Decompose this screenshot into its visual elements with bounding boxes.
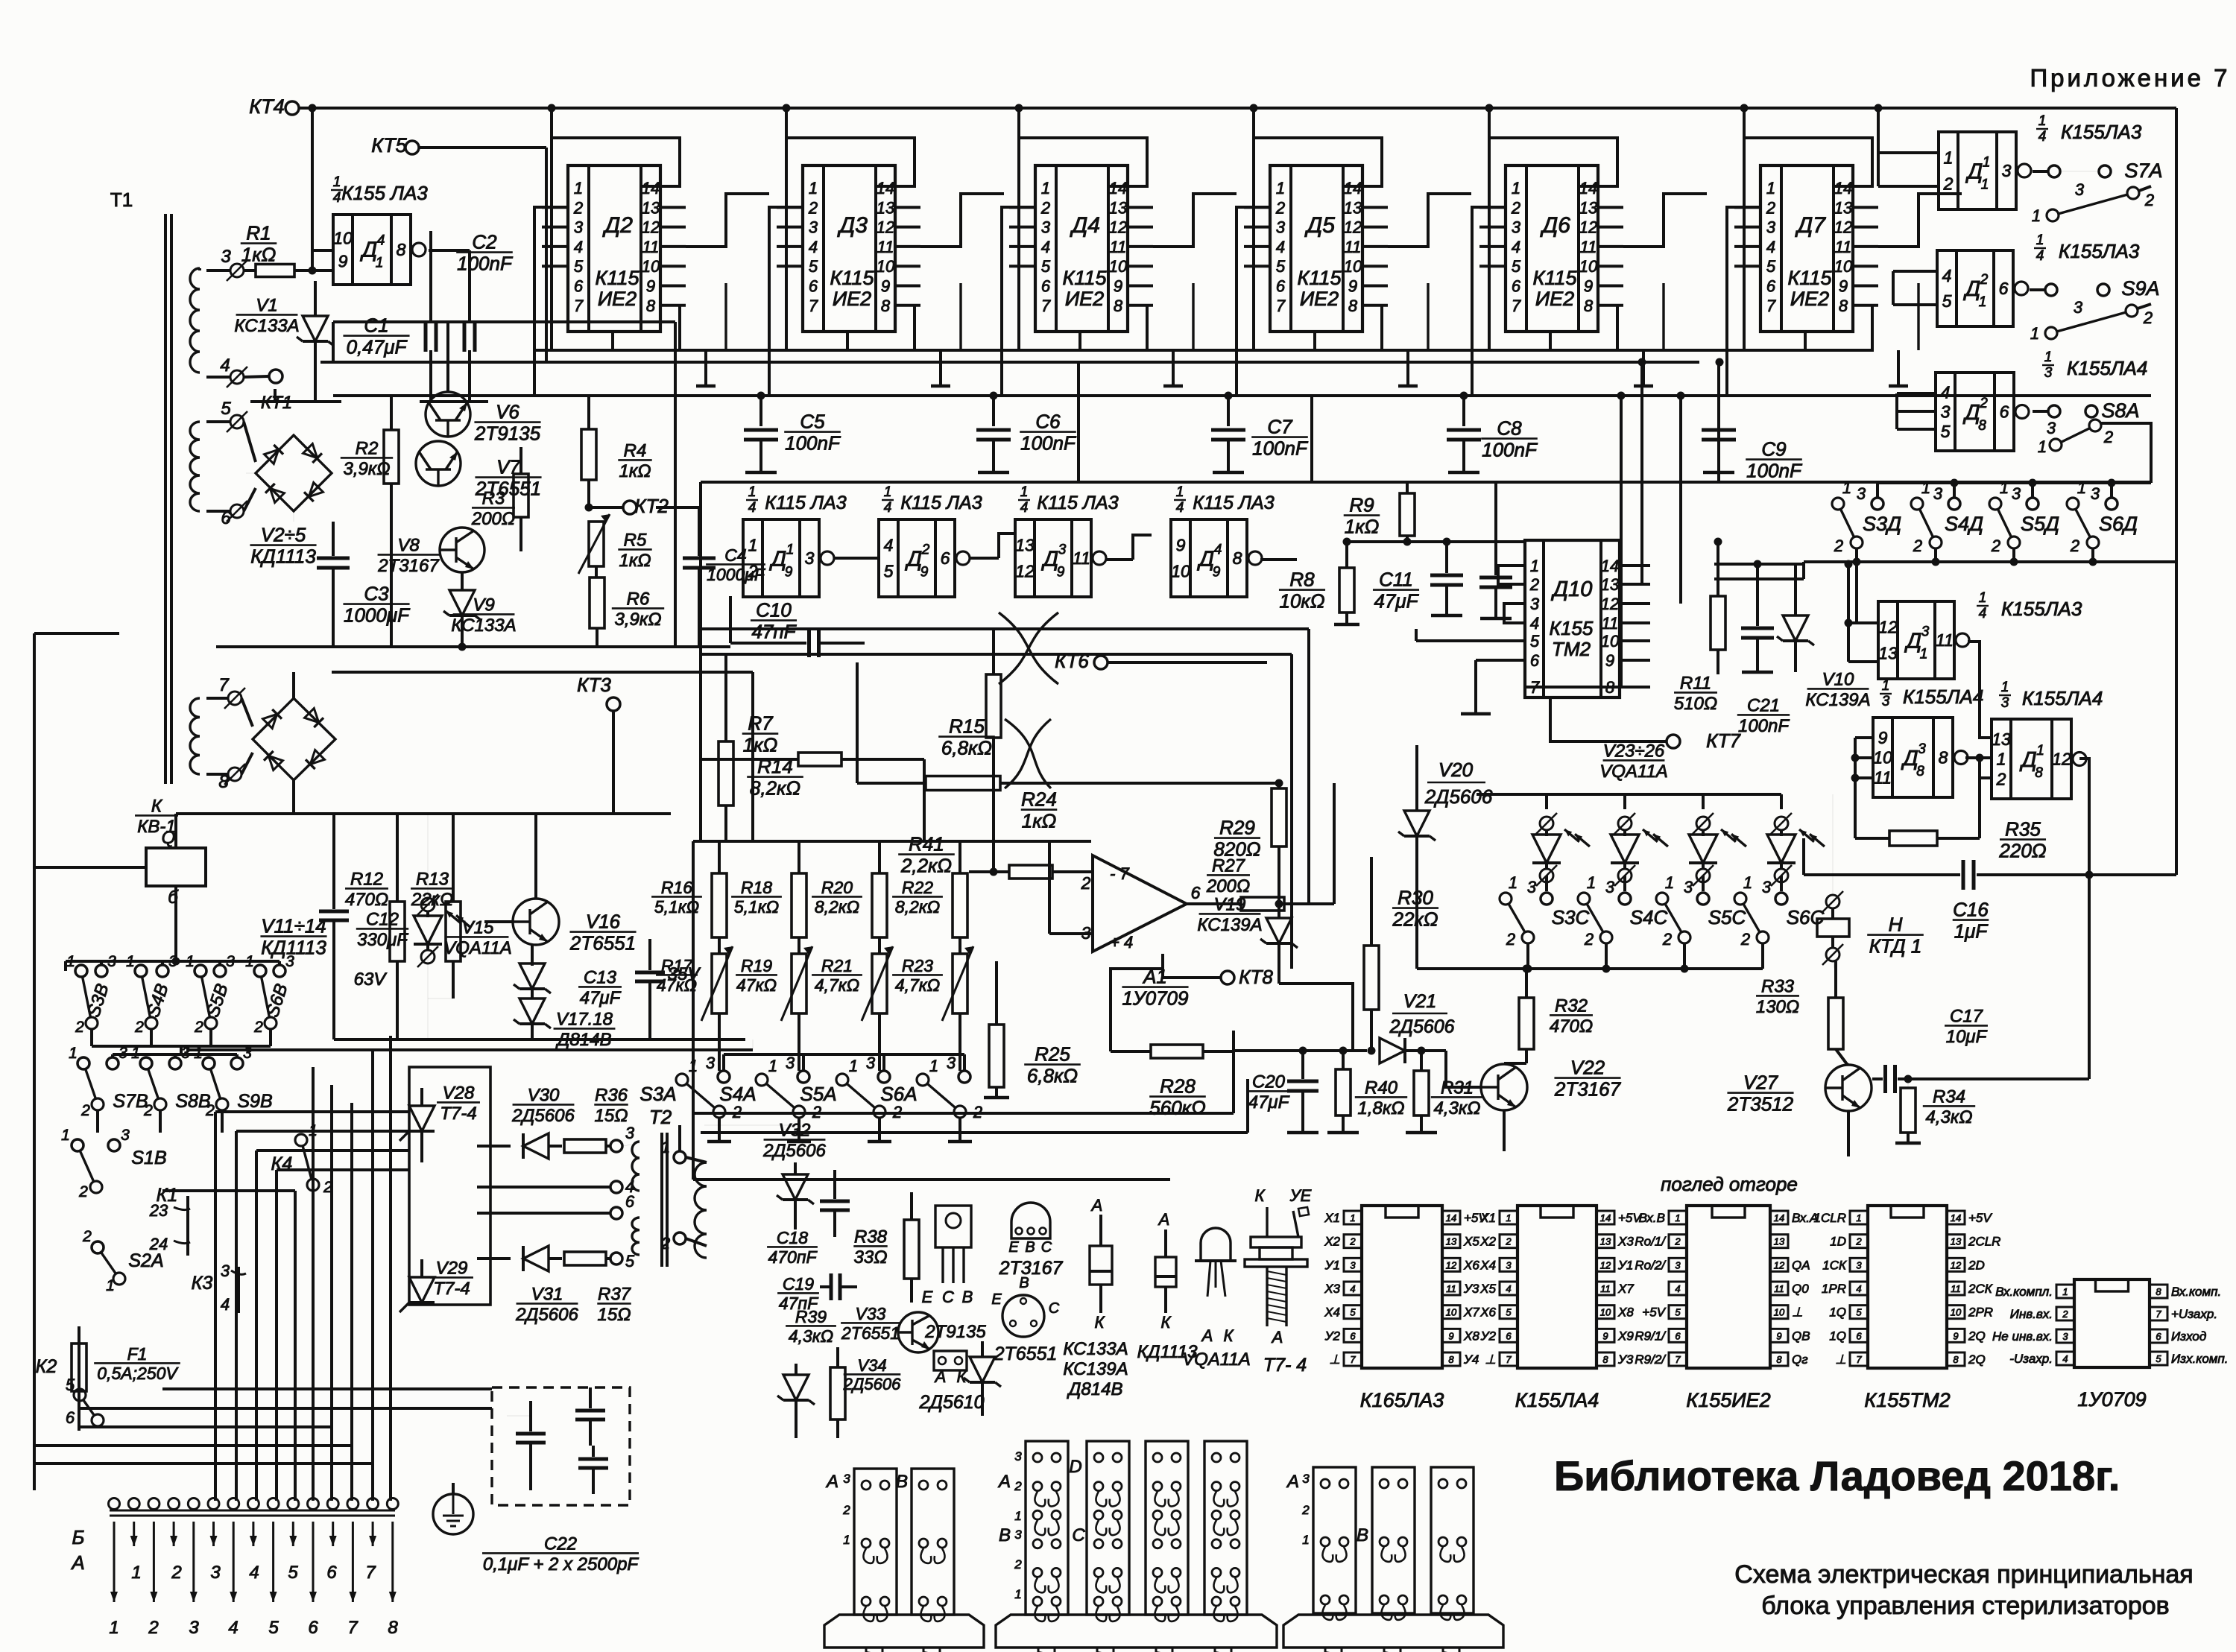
svg-text:9: 9: [1602, 1330, 1608, 1341]
svg-text:С: С: [1041, 1239, 1052, 1256]
svg-text:14: 14: [642, 179, 660, 197]
svg-text:4: 4: [228, 1618, 238, 1638]
svg-text:11: 11: [642, 238, 660, 256]
svg-text:R2: R2: [356, 439, 379, 459]
svg-text:R34: R34: [1933, 1087, 1965, 1107]
svg-text:Х6: Х6: [1463, 1258, 1479, 1272]
svg-text:1: 1: [2036, 743, 2044, 759]
svg-text:1: 1: [1276, 179, 1285, 197]
svg-text:+Uзахр.: +Uзахр.: [2171, 1307, 2217, 1321]
wires between ICs Д4: [1153, 194, 1237, 247]
svg-text:9: 9: [646, 277, 655, 296]
svg-text:22кΩ: 22кΩ: [1392, 908, 1438, 931]
svg-text:4: 4: [1276, 238, 1285, 256]
svg-text:Д6: Д6: [1540, 213, 1570, 238]
svg-text:13: 13: [1109, 198, 1128, 217]
svg-text:R11: R11: [1680, 674, 1711, 694]
svg-text:12: 12: [1015, 561, 1035, 580]
svg-text:КТ5: КТ5: [371, 134, 407, 156]
svg-text:14: 14: [1600, 1212, 1611, 1224]
svg-text:2CLR: 2CLR: [1968, 1235, 2000, 1249]
svg-text:Вх.комп.: Вх.комп.: [2171, 1285, 2221, 1299]
svg-text:VQA11А: VQA11А: [1182, 1349, 1251, 1370]
wires between ICs Д3: [920, 194, 1004, 247]
svg-text:КС133А: КС133А: [234, 316, 299, 336]
svg-text:-Uзахр.: -Uзахр.: [2009, 1352, 2053, 1366]
svg-text:2: 2: [842, 1503, 850, 1517]
svg-text:1: 1: [376, 255, 384, 270]
svg-text:2: 2: [1511, 198, 1520, 217]
svg-text:1: 1: [809, 179, 818, 197]
led V25: [1702, 794, 1705, 809]
svg-text:8: 8: [1776, 1354, 1782, 1365]
svg-text:К: К: [1224, 1326, 1234, 1345]
svg-text:3: 3: [285, 953, 294, 970]
svg-text:3: 3: [809, 218, 818, 237]
diode near R39: [783, 1375, 809, 1400]
pinout K155TM2: [1868, 1206, 1947, 1368]
svg-text:1: 1: [66, 953, 75, 970]
svg-text:11: 11: [1073, 548, 1090, 568]
switch S5Д: [1989, 498, 2001, 510]
svg-text:1: 1: [131, 1045, 140, 1062]
svg-text:3: 3: [706, 1054, 716, 1072]
svg-text:QА: QА: [1792, 1258, 1810, 1272]
wires between ICs Д2: [686, 194, 769, 247]
svg-text:С: С: [942, 1288, 954, 1306]
svg-text:3: 3: [1766, 218, 1776, 237]
svg-text:12: 12: [1878, 618, 1898, 637]
svg-text:Rо/2/: Rо/2/: [1635, 1258, 1667, 1272]
svg-text:2: 2: [1506, 930, 1515, 949]
svg-text:10: 10: [642, 257, 660, 276]
wire power box: [333, 320, 675, 323]
svg-text:10: 10: [1601, 632, 1620, 651]
svg-text:4: 4: [574, 238, 583, 256]
svg-text:1: 1: [1041, 179, 1050, 197]
svg-text:2Д5606: 2Д5606: [762, 1141, 826, 1161]
svg-text:11: 11: [877, 238, 894, 256]
wire KT5: [419, 146, 546, 149]
svg-text:8: 8: [1584, 297, 1594, 315]
svg-text:9: 9: [881, 277, 890, 296]
svg-text:R14: R14: [757, 755, 793, 777]
svg-text:Е: Е: [1008, 1239, 1019, 1256]
svg-text:V23÷26: V23÷26: [1603, 741, 1665, 762]
svg-text:V34: V34: [857, 1356, 886, 1375]
svg-text:1: 1: [748, 484, 757, 500]
svg-text:Х3: Х3: [1617, 1235, 1634, 1249]
winding T1 3-4: [190, 268, 200, 373]
svg-text:V8: V8: [397, 536, 420, 556]
wire supply2 box: [332, 671, 753, 674]
svg-text:S8A: S8A: [2101, 399, 2139, 422]
wire sw A bus: [724, 1053, 964, 1056]
svg-text:4: 4: [1530, 614, 1539, 633]
svg-text:100nF: 100nF: [1738, 716, 1790, 736]
svg-text:C4: C4: [724, 545, 746, 565]
svg-text:2: 2: [1979, 396, 1988, 411]
svg-text:1: 1: [1512, 179, 1520, 197]
svg-text:К155ЛА4: К155ЛА4: [1515, 1389, 1599, 1411]
svg-text:4: 4: [1856, 1283, 1861, 1294]
svg-text:Х4: Х4: [1479, 1258, 1496, 1272]
svg-text:8: 8: [1348, 297, 1358, 315]
svg-text:1кΩ: 1кΩ: [1345, 516, 1380, 538]
svg-text:560кΩ: 560кΩ: [1149, 1097, 1205, 1119]
svg-text:V16: V16: [586, 910, 621, 932]
svg-text:1: 1: [2062, 1286, 2068, 1297]
svg-text:1D: 1D: [1830, 1235, 1846, 1249]
svg-text:Т7- 4: Т7- 4: [1263, 1355, 1307, 1376]
svg-text:2Т9135: 2Т9135: [474, 423, 541, 445]
svg-text:5: 5: [1512, 257, 1521, 276]
svg-text:5,1кΩ: 5,1кΩ: [654, 897, 699, 917]
svg-text:7: 7: [1675, 1354, 1681, 1365]
svg-text:S5С: S5С: [1708, 906, 1746, 928]
svg-text:14: 14: [1344, 179, 1362, 197]
svg-text:9: 9: [1348, 277, 1357, 296]
svg-text:R3: R3: [482, 489, 505, 509]
svg-text:Х5: Х5: [1479, 1282, 1496, 1296]
wire S-D top bus: [1877, 481, 2151, 484]
svg-text:У1: У1: [1617, 1258, 1633, 1272]
svg-text:100nF: 100nF: [1020, 432, 1077, 455]
svg-text:Х8: Х8: [1463, 1329, 1479, 1343]
counter IC Д5 K115 IE2: [1270, 165, 1362, 332]
svg-text:10: 10: [1171, 561, 1190, 580]
svg-text:0,5А;250V: 0,5А;250V: [97, 1364, 179, 1383]
svg-text:35V: 35V: [668, 964, 701, 984]
svg-text:C5: C5: [800, 410, 825, 432]
switch S9A: [2045, 284, 2057, 296]
svg-text:5: 5: [1856, 1307, 1862, 1318]
svg-text:100nF: 100nF: [1252, 437, 1309, 460]
winding T1 5-6: [190, 422, 200, 511]
svg-text:R5: R5: [624, 531, 647, 551]
svg-text:КТ8: КТ8: [1239, 966, 1273, 988]
svg-text:8: 8: [1448, 1354, 1454, 1365]
svg-text:C18: C18: [777, 1228, 808, 1247]
svg-text:Т2: Т2: [649, 1106, 672, 1128]
earth ground: [452, 1483, 455, 1495]
svg-text:13: 13: [1774, 1236, 1785, 1247]
svg-text:6: 6: [941, 548, 950, 568]
svg-text:200Ω: 200Ω: [1206, 876, 1250, 896]
svg-text:У2: У2: [1324, 1329, 1341, 1343]
counter IC Д3 K115 IE2: [803, 165, 895, 332]
svg-text:9: 9: [785, 564, 793, 580]
svg-text:2: 2: [1505, 1236, 1512, 1247]
svg-text:R12: R12: [350, 870, 383, 890]
svg-text:Д7: Д7: [1795, 213, 1826, 238]
svg-text:6: 6: [1856, 1330, 1862, 1341]
svg-text:3: 3: [1512, 218, 1521, 237]
svg-text:1: 1: [131, 1563, 141, 1583]
svg-text:S5Д: S5Д: [2021, 513, 2059, 535]
svg-text:К115: К115: [1533, 267, 1578, 289]
svg-text:4: 4: [220, 355, 230, 376]
wires D10 left: [1498, 566, 1525, 584]
svg-text:100nF: 100nF: [1746, 460, 1803, 482]
svg-text:1Q: 1Q: [1829, 1329, 1846, 1343]
svg-text:КС139А: КС139А: [1805, 690, 1870, 710]
svg-text:1: 1: [1743, 873, 1752, 892]
svg-text:C3: C3: [364, 582, 389, 604]
svg-text:1кΩ: 1кΩ: [619, 551, 651, 571]
svg-text:5: 5: [1530, 632, 1540, 651]
switch S6Д: [2067, 498, 2079, 510]
switch S3В: [75, 965, 87, 977]
svg-text:V9: V9: [473, 595, 494, 615]
svg-text:S6А: S6А: [880, 1083, 917, 1105]
svg-text:К155 ЛА3: К155 ЛА3: [341, 182, 428, 204]
svg-text:R4: R4: [624, 441, 647, 461]
wire drop from top bus Д5: [1252, 108, 1255, 138]
svg-text:C7: C7: [1267, 415, 1293, 437]
svg-text:C9: C9: [1761, 437, 1786, 460]
svg-text:0,1μF + 2 x 2500pF: 0,1μF + 2 x 2500pF: [483, 1554, 639, 1575]
svg-text:3: 3: [107, 953, 116, 970]
svg-text:470пF: 470пF: [768, 1247, 818, 1267]
ground under Д5: [1406, 350, 1409, 386]
svg-text:2Т3167: 2Т3167: [377, 556, 440, 576]
svg-text:2Т3167: 2Т3167: [1554, 1078, 1622, 1101]
svg-text:V21: V21: [1403, 991, 1436, 1012]
svg-text:Х3: Х3: [1324, 1282, 1340, 1296]
svg-text:2: 2: [1740, 930, 1750, 949]
svg-text:33Ω: 33Ω: [854, 1247, 888, 1268]
svg-text:2: 2: [1040, 198, 1050, 217]
svg-text:К4: К4: [271, 1153, 293, 1174]
svg-text:К155ЛА3: К155ЛА3: [2001, 598, 2082, 620]
svg-text:14: 14: [1774, 1212, 1784, 1224]
svg-text:Т7-4: Т7-4: [433, 1279, 470, 1299]
svg-text:4: 4: [249, 1563, 259, 1583]
svg-text:13: 13: [642, 198, 660, 217]
svg-text:6: 6: [66, 1408, 75, 1427]
wire bus D: [534, 349, 1872, 352]
svg-text:КТ4: КТ4: [249, 95, 284, 118]
svg-text:1: 1: [1675, 1212, 1680, 1224]
svg-text:1: 1: [1530, 557, 1539, 575]
svg-text:- 7: - 7: [1110, 864, 1129, 883]
svg-text:Д: Д: [1901, 747, 1918, 770]
wire bus A: [320, 361, 1699, 364]
connector pin row: [109, 1498, 120, 1510]
svg-text:11: 11: [1602, 614, 1619, 633]
switch S6С: [1734, 893, 1746, 905]
svg-text:6: 6: [308, 1618, 318, 1638]
svg-text:3: 3: [1530, 595, 1540, 613]
svg-text:1: 1: [1506, 1212, 1511, 1224]
pinout 1U0709: [2074, 1279, 2150, 1367]
svg-text:1: 1: [309, 1122, 318, 1139]
svg-text:3: 3: [1941, 402, 1951, 422]
svg-text:3: 3: [2012, 484, 2021, 503]
svg-text:А: А: [934, 1367, 947, 1386]
wires D7 to right gates: [1877, 108, 1880, 153]
svg-text:V10: V10: [1822, 670, 1854, 690]
svg-text:7: 7: [218, 675, 230, 695]
svg-text:3: 3: [1857, 484, 1866, 503]
svg-text:Q: Q: [162, 828, 176, 848]
svg-text:14: 14: [877, 179, 894, 197]
svg-text:R16: R16: [661, 878, 692, 897]
pinout K155IE2: [1687, 1206, 1770, 1368]
svg-text:6,8кΩ: 6,8кΩ: [1027, 1065, 1078, 1087]
ground D10: [1474, 697, 1477, 714]
svg-text:7: 7: [347, 1618, 359, 1638]
svg-text:КТД 1: КТД 1: [1869, 935, 1922, 958]
wire mesh above op-amp: [701, 627, 1267, 630]
svg-text:1: 1: [661, 1138, 670, 1156]
svg-text:1: 1: [786, 542, 795, 557]
svg-text:12: 12: [642, 218, 660, 237]
fuse F1: [72, 1344, 86, 1391]
svg-text:1: 1: [748, 536, 758, 555]
svg-text:1У0709: 1У0709: [2077, 1388, 2146, 1411]
svg-text:УЕ: УЕ: [1289, 1186, 1312, 1205]
svg-text:2: 2: [1980, 272, 1989, 288]
svg-text:R1: R1: [246, 221, 271, 244]
svg-text:11: 11: [1580, 238, 1597, 256]
svg-text:F1: F1: [127, 1344, 148, 1364]
svg-text:2CК: 2CК: [1968, 1282, 1993, 1296]
svg-text:Б: Б: [72, 1526, 85, 1548]
svg-text:V2÷5: V2÷5: [261, 523, 306, 545]
ground under Д3: [939, 350, 942, 386]
svg-text:6: 6: [1276, 277, 1286, 296]
terminal 6: [610, 1207, 622, 1219]
svg-text:4: 4: [377, 232, 385, 248]
svg-text:9: 9: [920, 564, 929, 580]
switch S6А: [917, 1074, 929, 1086]
wires around Д2: [552, 138, 680, 350]
svg-text:4: 4: [1041, 238, 1050, 256]
svg-text:5: 5: [809, 257, 818, 276]
svg-text:КТ3: КТ3: [577, 674, 611, 696]
svg-text:3: 3: [2047, 419, 2056, 437]
svg-text:V20: V20: [1438, 759, 1474, 781]
svg-text:2: 2: [1584, 930, 1594, 949]
svg-text:2: 2: [1834, 537, 1843, 555]
svg-text:R29: R29: [1219, 816, 1255, 838]
svg-text:S4А: S4А: [719, 1083, 756, 1105]
svg-text:13: 13: [1344, 198, 1362, 217]
svg-text:63V: 63V: [354, 969, 388, 990]
svg-text:3: 3: [121, 1127, 130, 1144]
wires around Д5: [1254, 138, 1382, 350]
svg-text:R40: R40: [1365, 1078, 1398, 1098]
svg-text:А: А: [997, 1472, 1011, 1492]
svg-text:10: 10: [333, 228, 353, 247]
svg-text:7: 7: [1766, 297, 1776, 315]
svg-text:V33: V33: [856, 1304, 886, 1323]
svg-text:47пF: 47пF: [751, 621, 797, 643]
svg-text:Т1: Т1: [110, 189, 133, 211]
svg-text:C2: C2: [472, 230, 497, 253]
wire S-B top bus: [66, 960, 279, 963]
svg-text:1: 1: [186, 953, 195, 970]
svg-text:2Т6551: 2Т6551: [994, 1344, 1058, 1364]
switch S4В: [135, 965, 147, 977]
svg-text:1: 1: [1979, 590, 1987, 606]
svg-text:3: 3: [625, 1124, 635, 1142]
svg-text:V11÷14: V11÷14: [261, 914, 326, 937]
svg-text:V31: V31: [531, 1285, 563, 1305]
svg-text:R33: R33: [1761, 977, 1795, 997]
svg-text:4,7кΩ: 4,7кΩ: [815, 975, 859, 995]
svg-text:C11: C11: [1379, 568, 1413, 590]
svg-text:8,2кΩ: 8,2кΩ: [895, 897, 940, 917]
svg-text:2Д5606: 2Д5606: [1424, 785, 1493, 808]
svg-text:3: 3: [1921, 624, 1930, 639]
svg-text:К115: К115: [596, 267, 640, 289]
svg-text:1: 1: [1766, 179, 1775, 197]
svg-text:8: 8: [2156, 1286, 2161, 1297]
svg-text:Д: Д: [1965, 159, 1983, 183]
svg-text:У1: У1: [1324, 1258, 1340, 1272]
ground under Д2: [704, 350, 707, 386]
svg-text:1: 1: [884, 484, 892, 500]
svg-text:А: А: [825, 1472, 838, 1492]
svg-text:3: 3: [1276, 218, 1286, 237]
svg-text:13: 13: [1878, 643, 1898, 662]
svg-text:9: 9: [1605, 651, 1614, 670]
svg-text:1μF: 1μF: [1954, 920, 1989, 943]
svg-text:В: В: [1357, 1525, 1368, 1545]
svg-text:5: 5: [625, 1252, 635, 1270]
svg-text:1: 1: [2032, 206, 2041, 225]
wire relay top: [174, 814, 177, 848]
svg-text:S3Д: S3Д: [1863, 513, 1901, 535]
svg-text:2: 2: [253, 1019, 263, 1036]
svg-text:10: 10: [1579, 257, 1598, 276]
svg-text:3: 3: [2001, 695, 2009, 711]
svg-text:Д: Д: [1904, 629, 1921, 653]
svg-text:3: 3: [1675, 1259, 1681, 1270]
svg-text:4: 4: [2038, 129, 2047, 145]
svg-text:11: 11: [1874, 768, 1892, 787]
svg-text:5: 5: [884, 561, 894, 580]
svg-text:C12: C12: [366, 910, 399, 930]
svg-text:10: 10: [1600, 1307, 1611, 1318]
svg-text:1: 1: [1014, 1509, 1021, 1523]
svg-text:7: 7: [1041, 297, 1051, 315]
svg-text:R39: R39: [795, 1307, 827, 1326]
svg-text:2PR: 2PR: [1968, 1306, 1993, 1320]
svg-text:Х9: Х9: [1617, 1329, 1634, 1343]
connector group A: [854, 1469, 897, 1615]
svg-text:C16: C16: [1953, 898, 1989, 920]
svg-text:3: 3: [1014, 1449, 1022, 1463]
svg-text:8: 8: [1916, 764, 1924, 779]
svg-text:R30: R30: [1397, 886, 1433, 908]
svg-text:3: 3: [181, 1045, 190, 1062]
svg-text:Х7: Х7: [1463, 1306, 1479, 1320]
svg-text:5,1кΩ: 5,1кΩ: [734, 897, 779, 917]
svg-text:У2: У2: [1480, 1329, 1497, 1343]
svg-text:2: 2: [82, 1228, 92, 1245]
svg-text:Д: Д: [2019, 748, 2036, 772]
svg-text:S2А: S2А: [128, 1250, 163, 1271]
svg-text:3: 3: [210, 1563, 221, 1583]
svg-text:1000μF: 1000μF: [707, 565, 766, 584]
package VQA11A: [1201, 1228, 1231, 1261]
svg-text:6: 6: [625, 1192, 635, 1211]
counter IC Д7 K115 IE2: [1760, 165, 1853, 332]
